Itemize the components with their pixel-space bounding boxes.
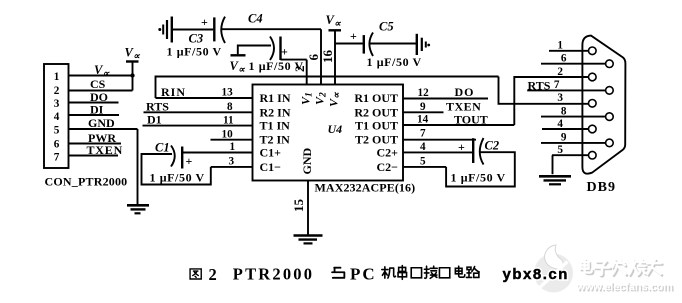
svg-text:∝: ∝ <box>238 66 246 76</box>
svg-text:DB9: DB9 <box>587 180 616 195</box>
svg-text:1 μF/50 V: 1 μF/50 V <box>367 55 422 69</box>
svg-text:7: 7 <box>54 151 60 163</box>
svg-text:1: 1 <box>557 40 563 52</box>
svg-text:9: 9 <box>420 101 426 113</box>
svg-text:R2 IN: R2 IN <box>260 105 291 119</box>
svg-text:6: 6 <box>561 53 567 65</box>
svg-text:3: 3 <box>54 98 60 110</box>
svg-text:16: 16 <box>320 50 335 64</box>
svg-text:C3: C3 <box>189 32 204 46</box>
svg-text:DI: DI <box>90 103 104 117</box>
svg-text:4: 4 <box>420 141 426 153</box>
svg-text:TXEN: TXEN <box>87 143 124 157</box>
svg-text:C5: C5 <box>379 20 394 34</box>
svg-text:T2 OUT: T2 OUT <box>355 133 398 147</box>
svg-text:∝: ∝ <box>333 91 343 99</box>
svg-text:15: 15 <box>291 199 306 213</box>
svg-text:R1 IN: R1 IN <box>260 91 291 105</box>
svg-text:CON_PTR2000: CON_PTR2000 <box>45 175 128 189</box>
svg-text:∝: ∝ <box>334 20 342 30</box>
svg-text:C4: C4 <box>248 12 263 26</box>
svg-text:RIN: RIN <box>161 85 186 99</box>
svg-text:4: 4 <box>54 111 60 123</box>
svg-text:∝: ∝ <box>133 52 141 62</box>
svg-text:T2 IN: T2 IN <box>260 133 291 147</box>
svg-text:GND: GND <box>300 148 314 175</box>
svg-text:C1+: C1+ <box>260 146 282 160</box>
svg-text:9: 9 <box>561 132 567 144</box>
svg-text:T1 IN: T1 IN <box>260 119 291 133</box>
svg-text:1: 1 <box>54 71 60 83</box>
svg-text:1: 1 <box>230 141 236 153</box>
svg-text:1: 1 <box>305 92 315 97</box>
svg-text:PC: PC <box>350 265 377 284</box>
svg-text:2: 2 <box>557 66 563 78</box>
svg-text:+: + <box>350 29 357 43</box>
svg-text:11: 11 <box>223 114 234 126</box>
svg-text:1 μF/50 V: 1 μF/50 V <box>167 45 222 59</box>
svg-text:1 μF/50 V: 1 μF/50 V <box>451 171 506 185</box>
svg-text:C2+: C2+ <box>376 146 398 160</box>
svg-text:TOUT: TOUT <box>454 112 488 126</box>
svg-text:U4: U4 <box>328 122 343 136</box>
svg-text:+: + <box>281 45 288 59</box>
svg-text:7: 7 <box>554 79 560 91</box>
svg-text:8: 8 <box>227 101 233 113</box>
svg-text:+: + <box>458 140 465 154</box>
svg-text:2: 2 <box>209 265 217 284</box>
svg-text:6: 6 <box>306 54 321 61</box>
svg-text:8: 8 <box>561 105 567 117</box>
svg-text:3: 3 <box>229 156 235 168</box>
svg-text:2: 2 <box>319 92 329 98</box>
svg-text:MAX232ACPE(16): MAX232ACPE(16) <box>315 181 416 195</box>
svg-text:CS: CS <box>90 77 106 91</box>
svg-text:5: 5 <box>420 155 426 167</box>
svg-text:+: + <box>186 154 193 168</box>
svg-text:7: 7 <box>420 128 426 140</box>
svg-text:2: 2 <box>54 85 60 97</box>
svg-text:GND: GND <box>88 116 115 130</box>
svg-text:D1: D1 <box>147 113 162 127</box>
svg-text:3: 3 <box>557 92 563 104</box>
svg-text:C1: C1 <box>155 141 170 155</box>
svg-text:PTR2000: PTR2000 <box>233 265 314 284</box>
svg-text:+: + <box>201 15 208 29</box>
svg-text:14: 14 <box>417 114 429 126</box>
svg-text:T1 OUT: T1 OUT <box>355 119 398 133</box>
svg-text:DO: DO <box>455 85 475 99</box>
svg-text:6: 6 <box>54 138 60 150</box>
svg-text:13: 13 <box>222 87 234 99</box>
svg-text:10: 10 <box>222 128 234 140</box>
svg-text:4: 4 <box>557 118 563 130</box>
svg-text:R1 OUT: R1 OUT <box>354 91 398 105</box>
svg-text:1 μF/50 V: 1 μF/50 V <box>150 171 205 185</box>
svg-text:1 μF/50 V: 1 μF/50 V <box>249 59 304 73</box>
svg-text:C1−: C1− <box>260 160 282 174</box>
svg-text:ybx8.cn: ybx8.cn <box>503 266 569 283</box>
svg-text:C2: C2 <box>485 139 500 153</box>
svg-text:5: 5 <box>54 124 60 136</box>
svg-text:C2−: C2− <box>376 160 398 174</box>
svg-text:5: 5 <box>557 144 563 156</box>
svg-text:R2 OUT: R2 OUT <box>354 105 398 119</box>
svg-text:12: 12 <box>418 87 430 99</box>
svg-text:www.elecfans.com: www.elecfans.com <box>576 281 673 293</box>
svg-text:RTS: RTS <box>146 99 169 113</box>
